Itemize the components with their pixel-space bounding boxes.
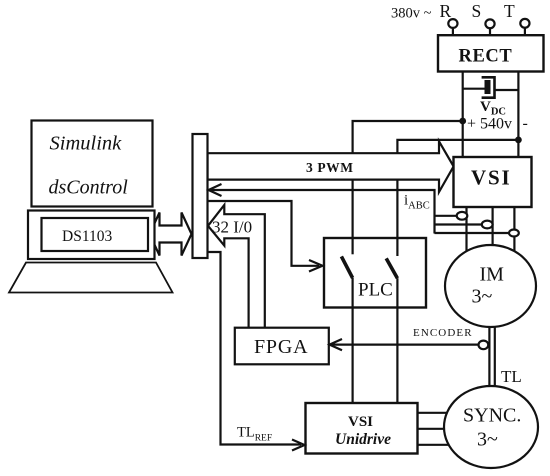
wire DC- rail to PLC (397, 140, 518, 238)
PLC internal wire right lower (396, 278, 398, 307)
wire iABC return to interface (210, 190, 435, 234)
terminal R (452, 28, 454, 35)
laptop base (28, 211, 155, 260)
connector double arrow laptop-interface (150, 213, 192, 256)
current sensor C (509, 230, 519, 237)
arrowhead TLREF into Unidrive (292, 440, 305, 451)
wire VSI phase A to IM (465, 207, 467, 256)
svg-text:3 PWM: 3 PWM (306, 160, 354, 175)
capacitor VDC plate (485, 80, 491, 94)
shaft IM to SYNC right line (494, 324, 496, 390)
laptop screen (32, 121, 153, 207)
interface panel bar (193, 134, 208, 258)
wire sensor tap C (435, 232, 510, 234)
wire PLC enable from interface (208, 201, 320, 266)
PLC switch blade right (386, 258, 397, 278)
arrowhead encoder into FPGA (330, 339, 343, 350)
junction node DC+ (459, 118, 466, 125)
svg-text:VSI: VSI (471, 166, 511, 190)
svg-text:Simulink: Simulink (50, 133, 123, 155)
wire DC+ rail to PLC (353, 121, 463, 238)
svg-text:3~: 3~ (477, 429, 498, 451)
wire DC- right leg below RECT (517, 72, 519, 158)
capacitor VDC bracket plate (482, 77, 495, 97)
svg-text:3~: 3~ (472, 286, 493, 308)
PLC internal wire left lower (352, 278, 354, 308)
wire VSI phase C to IM (513, 207, 515, 256)
coupling line Unidrive-SYNC 1 (418, 412, 451, 414)
svg-text:ENCODER: ENCODER (413, 327, 473, 339)
terminal S (489, 28, 491, 35)
FPGA box (235, 328, 329, 365)
drive VSI Unidrive (306, 403, 418, 454)
wire encoder to FPGA (332, 344, 479, 346)
svg-text:DS1103: DS1103 (62, 228, 112, 245)
current sensor A (457, 212, 468, 220)
rectifier RECT (438, 35, 544, 71)
current sensor B (482, 221, 493, 229)
svg-text:T: T (504, 1, 515, 21)
board DS1103 (42, 218, 149, 251)
svg-text:R: R (440, 1, 452, 21)
encoder on shaft (479, 341, 489, 350)
laptop keyboard (9, 263, 173, 293)
wire PLC to Unidrive left (352, 308, 354, 404)
svg-text:PLC: PLC (358, 280, 393, 301)
svg-text:IM: IM (480, 264, 505, 286)
wire sensor tap B (435, 223, 483, 225)
shaft IM to SYNC left line (488, 324, 490, 390)
svg-text:380v ~: 380v ~ (391, 6, 432, 22)
wire DC+ left leg below RECT (462, 72, 464, 158)
bus arrow 32 I/0 (L-shaped from FPGA to interface) (208, 205, 265, 329)
svg-text:Unidrive: Unidrive (335, 431, 391, 448)
bus arrow 3 PWM (208, 141, 454, 192)
svg-text:S: S (472, 1, 482, 21)
svg-text:dsControl: dsControl (49, 177, 129, 199)
inverter VSI (454, 157, 532, 207)
coupling line Unidrive-SYNC 3 (418, 444, 452, 446)
wire TLREF from interface to Unidrive (208, 252, 302, 445)
svg-text:+ 540v: + 540v (467, 116, 512, 133)
svg-text:RECT: RECT (459, 47, 513, 67)
svg-text:SYNC.: SYNC. (463, 405, 521, 427)
svg-text:TL: TL (501, 367, 522, 386)
svg-text:32 I/0: 32 I/0 (212, 218, 252, 237)
wire VSI phase B to IM (492, 207, 494, 250)
PLC switch blade left (341, 256, 352, 278)
svg-text:-: - (523, 115, 528, 132)
PLC internal wire left upper (352, 238, 354, 254)
svg-text:VSI: VSI (348, 414, 373, 430)
capacitor VDC right lead (495, 89, 519, 91)
arrowhead enable into PLC (309, 260, 323, 272)
PLC internal wire right upper (396, 238, 398, 256)
capacitor VDC left lead (463, 88, 485, 90)
terminal T (524, 28, 526, 35)
svg-text:FPGA: FPGA (254, 336, 308, 358)
wire PLC to Unidrive right (396, 308, 398, 404)
coupling line Unidrive-SYNC 2 (418, 428, 447, 430)
arrowhead iABC into interface (209, 184, 222, 196)
induction machine IM (445, 245, 536, 327)
wire sensor tap A (435, 215, 458, 217)
contactor box PLC (324, 238, 426, 308)
junction node DC- (515, 137, 522, 144)
synchronous machine SYNC (444, 386, 538, 468)
